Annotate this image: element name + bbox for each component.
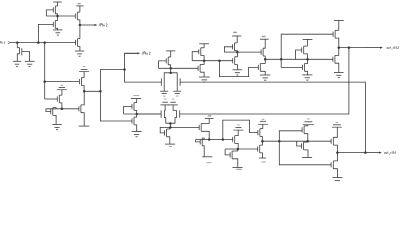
node dot NL2c	[306, 58, 309, 61]
wire T2 gate riser	[38, 24, 53, 42]
ground cap-right	[25, 60, 35, 62]
wire node P1 line	[159, 67, 199, 69]
node dot out2a	[338, 46, 341, 49]
wire node NB2 line	[196, 139, 233, 141]
wire T14 gate riser	[100, 91, 132, 121]
transistor M19A	[260, 50, 262, 55]
wire T24 gate arm	[160, 127, 170, 132]
power VDD bar T15	[199, 43, 209, 45]
transistor M25	[198, 125, 200, 130]
node dot NC	[237, 148, 240, 151]
power Vdd label T25	[208, 115, 211, 116]
transistor M13 diode load	[131, 104, 133, 109]
transistor M21	[332, 32, 334, 37]
arrow out_clk2	[366, 47, 381, 49]
supply vdd tap pair2-right	[172, 98, 175, 101]
node dot NB2b	[222, 138, 225, 141]
node dot NO1a	[261, 140, 264, 143]
node dot N3	[236, 51, 239, 54]
transistor M17 diode load	[232, 44, 234, 49]
power Vdd tap T35	[307, 118, 310, 121]
wire M11 gate loop	[159, 61, 167, 68]
supply vdd tap pair2-left	[164, 98, 167, 101]
transistor M5	[75, 40, 77, 45]
node dot NO1c	[306, 140, 309, 143]
power Vdd tap T7	[61, 84, 64, 87]
wire /PHI2 arm up	[125, 53, 138, 69]
node dot P2a	[169, 122, 172, 125]
wire P2-T25 line	[170, 126, 199, 128]
wire T7 gate line	[45, 98, 58, 100]
transistor M12B pair1-right	[179, 78, 181, 85]
transistor M1 diode load	[52, 7, 54, 12]
power Vdd tap T6	[83, 65, 86, 68]
transistor M24 diode clamp	[164, 130, 166, 135]
node dot Q	[135, 113, 138, 116]
ground M8	[52, 124, 62, 126]
ground M26	[202, 156, 212, 158]
supply vss tap pair1-right	[173, 90, 181, 92]
transistor M33	[330, 162, 332, 167]
wire M17 gate loop	[224, 47, 232, 52]
wire M13 gate loop	[124, 107, 132, 115]
node dot B1a	[83, 90, 86, 93]
wire T33 gate route	[279, 141, 331, 165]
transistor M7	[56, 96, 58, 101]
transistor M35	[301, 127, 303, 132]
wire pair2 left gate line	[137, 113, 161, 115]
transistor M18	[232, 58, 234, 63]
transistor M22A diode	[301, 47, 303, 52]
ground M29	[233, 167, 243, 169]
wire out_clk1 line	[337, 152, 365, 154]
power Vdd label T3	[78, 3, 81, 4]
ground cap-left	[13, 60, 21, 62]
node dot out1b	[364, 151, 367, 154]
ground M5	[75, 50, 84, 52]
node dot B1b	[99, 90, 102, 93]
power Vdd tap T32	[336, 121, 339, 124]
transistor M11 diode load	[165, 58, 167, 63]
node dot out1a	[336, 151, 339, 154]
node dot P2b	[169, 126, 172, 128]
power Vdd label T17	[233, 32, 237, 33]
transistor M29 diode	[229, 152, 231, 157]
node dot riser-T6	[43, 80, 46, 83]
transistor M3 follower	[74, 13, 76, 18]
power VDD bar T11	[166, 50, 175, 52]
node dot N1	[56, 15, 59, 18]
ground M14	[132, 131, 142, 133]
transistor M22B	[302, 65, 304, 70]
node dot NL2b	[280, 58, 283, 61]
arrow /PHI2 out2	[125, 52, 138, 54]
ground M23	[334, 71, 344, 73]
wire input rail PHI2	[10, 42, 75, 44]
transistor M19B	[257, 65, 259, 70]
arrow out_clk1	[365, 152, 379, 154]
wire W1 feedback N1b-M19Bgate	[220, 61, 259, 77]
wire M26 gate loop	[196, 140, 201, 142]
wire cap drain drop	[16, 43, 18, 48]
supply vss tap M30	[259, 157, 266, 159]
wire M15 gate loop	[192, 52, 199, 61]
transistor M14 driver	[131, 118, 133, 123]
transistor M16	[197, 66, 199, 71]
wire N3-T19 route	[237, 51, 261, 53]
wire P1 stub	[170, 68, 172, 73]
wire node B1 link	[84, 90, 100, 92]
transistor M20B pair2-right	[179, 110, 181, 117]
wire left down-riser	[44, 43, 46, 99]
wire M3-M5 drop	[79, 25, 81, 39]
input port PHI2	[0, 41, 1, 43]
transistor M2 driver	[52, 22, 54, 27]
wire out_clk2 line	[339, 47, 366, 49]
wire NB2 riser + T31 gate route	[223, 120, 258, 139]
ground M22B	[302, 74, 312, 76]
node dot NB2a	[208, 138, 211, 141]
transistor M23	[332, 57, 334, 62]
wire node NL2 line	[265, 58, 333, 60]
power VDD bar T21	[334, 20, 344, 22]
wire node N1 line	[46, 15, 75, 17]
wire node NO1 line	[262, 140, 331, 142]
wire T6 gate line	[45, 81, 80, 83]
transistor M12A pair1-left	[160, 78, 162, 85]
node dot rail-T2riser	[37, 41, 40, 44]
wire W5 out_clk2 feedback	[180, 48, 349, 114]
wire M22B gate route	[281, 59, 302, 67]
supply vss tap pair1-left	[160, 90, 168, 92]
power VDD bar T22	[303, 38, 313, 40]
transistor M34 diode clamp	[301, 143, 303, 148]
ground M33	[332, 177, 342, 179]
power VDD bar stage1	[53, 1, 61, 3]
transistor M4 (MOS cap)	[17, 47, 19, 49]
wire M22A gate loop	[296, 50, 302, 59]
ground M2	[53, 29, 62, 31]
arrow /PHI2 out1	[80, 24, 95, 26]
transistor M28	[232, 137, 234, 142]
ground M9	[79, 125, 90, 127]
node dot out2b	[348, 46, 351, 49]
node dot rail-cap	[16, 41, 19, 44]
ground M34	[302, 157, 312, 159]
wire node Q line	[124, 113, 162, 115]
node dot NO1b	[278, 140, 281, 143]
wire M34 gate loop	[297, 141, 302, 146]
wire node NC line	[225, 148, 258, 150]
wire node B2 line	[46, 108, 79, 110]
node dot N2a	[203, 59, 206, 62]
node dot rail-downriser	[43, 41, 46, 44]
transistor M9	[78, 106, 80, 111]
wire P2 stub	[169, 124, 171, 128]
transistor M26 diode	[199, 139, 201, 144]
transistor M30	[257, 146, 259, 151]
wire B1 up-riser	[100, 70, 124, 92]
ground M24	[165, 143, 175, 145]
power VDD bar T13	[133, 95, 139, 97]
wire T35 gate route	[279, 131, 302, 141]
wire M29 gate loop	[225, 149, 230, 155]
power Vdd tap T31	[262, 118, 265, 121]
power Vdd tap T28	[237, 124, 240, 127]
node dot P1	[169, 67, 172, 70]
transistor M8 diode	[50, 109, 52, 114]
wire node N2 line	[192, 60, 233, 62]
node dot riser2	[123, 68, 126, 71]
power Vdd label T19	[262, 36, 266, 37]
wire W4 out_clk1 feedback	[180, 82, 365, 153]
node dot B2	[61, 108, 64, 111]
transistor M32	[330, 139, 332, 144]
ground M16	[199, 76, 210, 78]
ground M19B	[260, 74, 271, 76]
wire T21 gate route	[281, 34, 333, 59]
node dot N2b	[218, 59, 221, 62]
transistor M15 diode load	[198, 49, 200, 54]
node dot P1b	[169, 72, 172, 75]
transistor M20A pair2-left	[160, 110, 162, 117]
wire M8 gate loop	[46, 109, 51, 112]
transistor M31	[257, 130, 259, 135]
wire M1 gate loop	[46, 10, 53, 16]
wire node N3 line	[224, 51, 237, 53]
node dot NL2a	[264, 58, 267, 61]
ground M18	[233, 69, 243, 71]
transistor M6	[78, 79, 80, 84]
node dot /PHI2	[79, 24, 82, 27]
wire pair1 left-gate arm	[125, 70, 162, 83]
